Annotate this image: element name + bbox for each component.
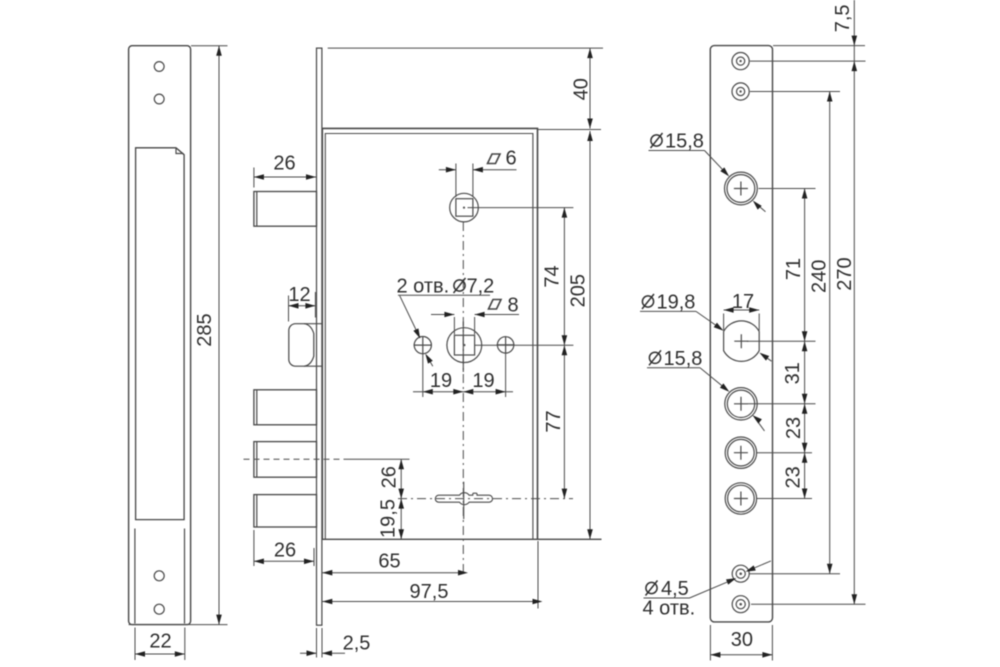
dim 205 vertical line	[589, 131, 591, 539]
hole row4 cross	[734, 446, 748, 460]
diameter symbol 15.8 upper	[651, 133, 663, 148]
dim 31 arrows	[802, 341, 808, 351]
hole row5	[725, 483, 756, 514]
latch bottom housing line	[304, 365, 322, 367]
dim 2.5 line	[300, 652, 345, 654]
ext hole row4	[757, 452, 812, 454]
svg-text:30: 30	[731, 629, 753, 651]
label 15.8 lower leader	[700, 368, 727, 390]
strike plate outline	[129, 46, 191, 625]
label 15.8 upper leader	[705, 151, 727, 174]
dim 17 left extension	[723, 314, 725, 331]
dim 6 right extension	[472, 164, 474, 198]
svg-text:6: 6	[506, 148, 517, 170]
dim 65 arrows	[322, 570, 332, 576]
deadbolt 1 cap line	[256, 390, 258, 425]
dim 40 vertical line	[589, 48, 591, 128]
svg-text:15,8: 15,8	[665, 131, 704, 153]
dim 26 top arrows	[254, 174, 264, 180]
strike screw hole bottom1	[154, 571, 164, 581]
dim 2.5 left extension	[316, 628, 318, 658]
label 19.8 leader arrow	[714, 323, 725, 333]
body top extension line to 40/205 dim	[538, 129, 602, 131]
diameter symbol 15.8 lower	[649, 350, 661, 365]
dim 17 line	[724, 309, 760, 311]
svg-text:40: 40	[570, 78, 592, 100]
dim 23 lower arrows	[802, 453, 808, 463]
svg-text:8: 8	[508, 295, 519, 317]
dim 26 bottom-left line	[254, 560, 314, 562]
label 4.5 second leader	[754, 561, 771, 568]
svg-text:19: 19	[430, 370, 452, 392]
hole 15.8 lower cross	[734, 397, 748, 411]
dim 26 top extension	[253, 168, 255, 188]
dim 74/77 arrows	[562, 208, 568, 218]
strike screw hole top1	[154, 62, 164, 72]
svg-text:205: 205	[568, 274, 590, 307]
dim 8 left extension	[453, 317, 455, 335]
svg-text:71: 71	[783, 258, 805, 280]
svg-text:26: 26	[273, 153, 295, 175]
dim 8 arrows	[444, 312, 454, 318]
label 7.2 second leader	[428, 357, 433, 366]
label 15.8 upper leader arrow	[720, 167, 731, 178]
keyhole	[435, 493, 492, 505]
dim 40 arrows	[587, 48, 593, 58]
label 4.5 leader	[690, 582, 728, 598]
diameter symbol 19.8	[642, 294, 654, 309]
hole 7.2 right extension down	[505, 354, 507, 397]
strike screw hole bottom2	[154, 604, 164, 614]
diameter symbol 7.2	[454, 278, 466, 293]
label 15.8 lower second leader	[755, 418, 765, 431]
svg-text:26: 26	[379, 466, 401, 488]
svg-text:97,5: 97,5	[410, 581, 449, 603]
latch top housing line	[304, 323, 322, 325]
hole 19.8 cross	[734, 334, 748, 348]
dim 26 bottom-left left extension	[253, 530, 255, 566]
dim 97.5 arrows	[322, 599, 332, 605]
dim 22 right extension line	[184, 628, 186, 661]
square 8 hole	[454, 335, 474, 355]
dim 240 vertical line	[829, 92, 831, 574]
svg-text:23: 23	[783, 417, 805, 439]
dim 240 arrows	[827, 92, 833, 102]
dim 12 arrows	[289, 303, 299, 309]
svg-text:74: 74	[542, 265, 564, 287]
dim 285 arrows	[216, 46, 222, 56]
dim 12 right extension	[314, 292, 316, 318]
dim 71/31/23/23 vertical line	[804, 189, 806, 499]
front plate outline	[710, 46, 772, 622]
svg-text:4 отв.: 4 отв.	[643, 598, 696, 620]
deadbolt 2 centerline solid part	[345, 458, 410, 460]
hole 15.8 upper	[725, 172, 758, 205]
square 6 leader to 74 dim	[468, 207, 574, 209]
dim 270 bottom arrow	[852, 594, 858, 604]
deadbolt 1	[254, 390, 317, 425]
dim 2.5 right extension	[321, 628, 323, 658]
svg-text:77: 77	[543, 410, 565, 432]
svg-text:31: 31	[782, 362, 804, 384]
svg-text:2 отв.: 2 отв.	[397, 276, 450, 298]
front screw hole bottom2	[732, 596, 749, 613]
hole row4	[725, 437, 756, 468]
lock faceplate edge strip	[317, 48, 322, 625]
label 19.8 second leader	[763, 355, 772, 361]
dim 26/19.5 arrows	[398, 459, 404, 469]
label 19.8 underline	[640, 310, 696, 312]
dim 7.5/270 vertical line	[853, 0, 855, 604]
front screw hole top1	[732, 53, 749, 70]
dim 26 bottom-left right extension	[313, 548, 315, 566]
svg-text:2,5: 2,5	[343, 633, 371, 655]
dim 6 line	[439, 169, 517, 171]
svg-text:19,5: 19,5	[378, 499, 400, 538]
hole 15.8 lower	[725, 388, 757, 420]
diameter symbol 4.5	[646, 581, 658, 596]
cutout corner fold	[176, 148, 184, 155]
dim 12 line	[289, 305, 316, 307]
hole 7.2 right cross	[497, 336, 515, 354]
hole 19.8 with flats	[724, 321, 760, 362]
dim 26/19.5 vertical line	[400, 459, 402, 539]
top bolt cap line	[256, 192, 258, 227]
faceplate top extension line	[328, 47, 603, 49]
square symbol 6	[488, 154, 501, 164]
dim 285 bottom extension line	[129, 624, 228, 626]
dim 17 right extension	[758, 314, 760, 331]
square 8 center dot	[463, 344, 465, 346]
ext hole 15.8 upper	[759, 188, 816, 190]
dim 8 line	[431, 314, 519, 316]
lock body outline	[322, 128, 537, 539]
square 8 circle	[447, 328, 482, 363]
dim 74/77 vertical line	[563, 208, 565, 499]
label 7.2 leader	[400, 296, 419, 336]
label 4.5 leader arrow	[726, 576, 737, 585]
label 15.8 lower underline	[647, 367, 700, 369]
dim 19 19 arrows	[423, 389, 433, 395]
ext screw bottom1	[750, 573, 841, 575]
latch bolt	[289, 324, 314, 367]
svg-text:19: 19	[472, 370, 494, 392]
label 15.8 lower leader arrow	[720, 383, 731, 394]
svg-text:26: 26	[274, 540, 296, 562]
lock body bottom line with 205 extension	[322, 538, 601, 540]
hole 7.2 left	[414, 337, 431, 354]
dim 17 arrows	[724, 307, 734, 313]
strike channel right wall	[184, 529, 186, 624]
svg-text:7,5: 7,5	[832, 4, 854, 32]
dim 6 arrows	[446, 167, 456, 173]
svg-text:7,2: 7,2	[467, 276, 495, 298]
ext plate top	[773, 45, 865, 47]
square 6 hole	[456, 199, 473, 217]
dim 6 left extension	[455, 164, 457, 198]
svg-text:23: 23	[783, 466, 805, 488]
label 15.8 upper second leader	[756, 203, 766, 212]
ext screw top1	[750, 60, 866, 62]
keyhole centerline vertical solid	[463, 482, 465, 519]
dim 2.5 arrows	[307, 650, 317, 656]
dim 26 top line	[254, 176, 316, 178]
lock body lid inner line	[325, 134, 533, 540]
label 15.8 upper underline	[649, 150, 705, 152]
top auxiliary bolt	[254, 192, 317, 227]
strike plate cutout	[136, 148, 185, 520]
svg-text:240: 240	[809, 260, 831, 293]
ext hole 15.8 lower	[748, 403, 816, 405]
vertical dashed centerline	[462, 222, 464, 573]
deadbolt 2	[254, 442, 317, 478]
dim 30 right extension	[771, 625, 773, 661]
dim 97.5 right extension	[537, 541, 539, 609]
dim 65 line	[322, 572, 463, 574]
dim 97.5 line	[322, 601, 538, 603]
square 6 circle	[450, 193, 479, 222]
front screw hole top2	[732, 83, 749, 100]
square 8 leader to 77 dim	[475, 344, 574, 346]
dim 22 left extension line	[134, 628, 136, 661]
hole 7.2 left cross	[414, 336, 433, 355]
hole 7.2 left extension down	[422, 355, 424, 398]
dim 205 arrows	[587, 131, 593, 141]
dim 7.5 arrows	[852, 36, 858, 46]
dim 22 line	[135, 653, 185, 655]
strike screw hole top2	[154, 94, 164, 104]
dim 8 right extension	[474, 317, 476, 335]
svg-text:65: 65	[378, 551, 400, 573]
dim 23 upper arrows	[802, 404, 808, 414]
square 6 center dot	[463, 207, 465, 209]
dim 22 arrows	[135, 651, 145, 657]
svg-text:270: 270	[834, 257, 856, 290]
deadbolt 3 cap line	[256, 495, 258, 527]
ext hole row5	[757, 498, 812, 500]
square symbol 8	[489, 300, 502, 310]
ext screw bottom2	[751, 603, 866, 605]
dim 26 bottom-left arrows	[254, 559, 264, 565]
front screw hole bottom1	[732, 565, 749, 582]
hole 15.8 upper cross	[734, 182, 748, 196]
dim 19 19 line	[413, 391, 513, 393]
dim 285 top extension line	[191, 45, 228, 47]
keyhole centerline horizontal	[398, 498, 573, 500]
strike channel left wall	[134, 529, 136, 624]
label 7.2 leader arrow	[413, 328, 422, 339]
svg-text:19,8: 19,8	[657, 292, 696, 314]
svg-text:15,8: 15,8	[664, 348, 703, 370]
svg-text:285: 285	[194, 313, 216, 346]
svg-text:22: 22	[149, 631, 171, 653]
dim 12 left extension	[288, 296, 290, 322]
dim 30 left extension	[709, 625, 711, 661]
deadbolt 2 cap line	[256, 442, 258, 478]
ext screw top2	[750, 91, 840, 93]
deadbolt 3	[254, 495, 317, 527]
label 7.2 second leader arrow	[423, 352, 433, 363]
dim 71 arrows	[802, 189, 808, 199]
svg-text:17: 17	[732, 291, 754, 313]
square 8 centerline vertical solid	[462, 322, 464, 373]
svg-text:12: 12	[288, 284, 310, 306]
dim 285 line	[218, 46, 220, 625]
hole 7.2 right	[497, 337, 513, 353]
hole row5 cross	[734, 492, 748, 506]
dim 30 arrows	[710, 652, 720, 658]
label 7.2 underline	[398, 294, 490, 296]
ext hole 19.8	[747, 340, 816, 342]
label 4.5 underline	[644, 597, 690, 599]
deadbolt 2 dashed centerline	[244, 458, 346, 460]
label 19.8 leader	[696, 311, 720, 328]
dim 30 line	[710, 654, 772, 656]
